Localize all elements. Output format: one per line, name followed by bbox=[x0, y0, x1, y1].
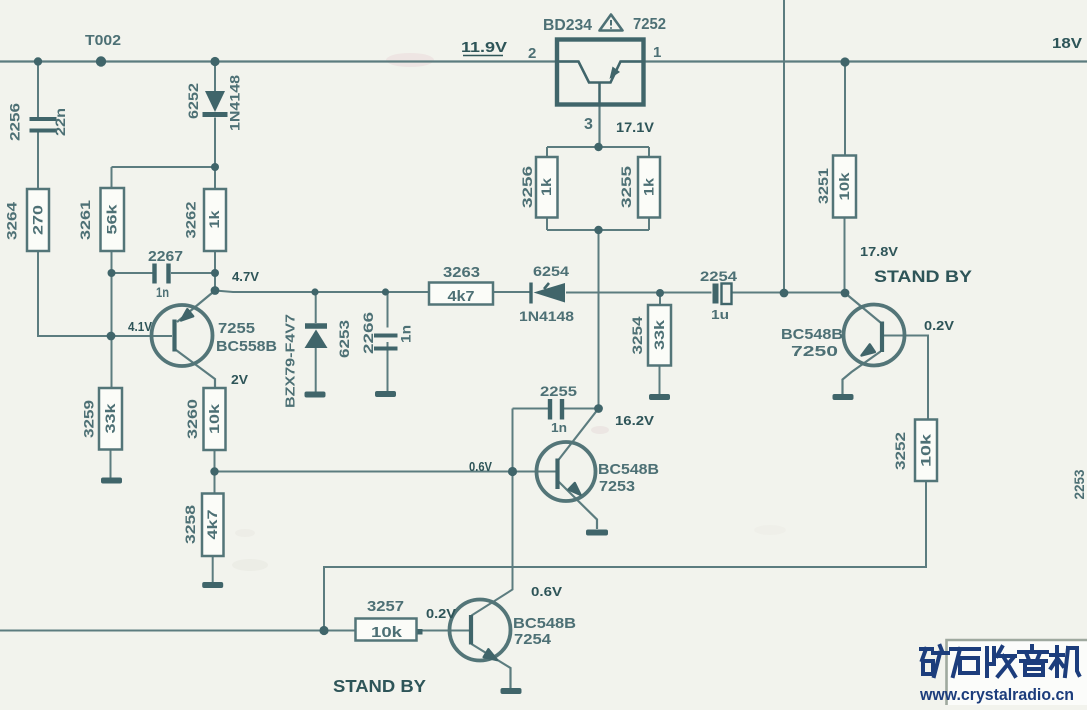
svg-text:56k: 56k bbox=[105, 204, 120, 235]
svg-text:10k: 10k bbox=[919, 433, 934, 467]
svg-text:1n: 1n bbox=[399, 325, 414, 343]
svg-text:22n: 22n bbox=[52, 108, 68, 136]
svg-text:3261: 3261 bbox=[77, 200, 93, 240]
svg-text:3: 3 bbox=[584, 116, 593, 133]
svg-text:BC548B: BC548B bbox=[513, 615, 576, 632]
svg-text:3254: 3254 bbox=[629, 316, 645, 354]
svg-text:2V: 2V bbox=[231, 373, 249, 387]
svg-text:33k: 33k bbox=[103, 403, 118, 434]
svg-text:17.8V: 17.8V bbox=[860, 244, 898, 259]
svg-text:7250: 7250 bbox=[791, 343, 838, 360]
svg-text:10k: 10k bbox=[837, 172, 852, 201]
svg-text:www.crystalradio.cn: www.crystalradio.cn bbox=[919, 685, 1074, 704]
svg-text:3256: 3256 bbox=[519, 166, 535, 208]
svg-text:2266: 2266 bbox=[360, 312, 376, 354]
svg-text:3259: 3259 bbox=[80, 400, 96, 438]
svg-text:6253: 6253 bbox=[336, 320, 352, 358]
svg-text:3262: 3262 bbox=[182, 201, 198, 238]
svg-text:270: 270 bbox=[31, 205, 46, 235]
svg-text:17.1V: 17.1V bbox=[616, 119, 655, 135]
svg-text:0.6V: 0.6V bbox=[469, 460, 493, 474]
svg-text:BC558B: BC558B bbox=[216, 338, 277, 355]
svg-text:7254: 7254 bbox=[514, 631, 552, 648]
svg-text:3257: 3257 bbox=[367, 598, 404, 615]
svg-text:0.2V: 0.2V bbox=[924, 318, 954, 333]
svg-text:1n: 1n bbox=[156, 284, 169, 300]
svg-text:0.2V: 0.2V bbox=[426, 606, 456, 621]
svg-text:2253: 2253 bbox=[1071, 469, 1087, 499]
svg-text:18V: 18V bbox=[1052, 35, 1082, 52]
svg-text:3263: 3263 bbox=[443, 264, 480, 281]
svg-text:10k: 10k bbox=[371, 624, 403, 641]
svg-text:1k: 1k bbox=[207, 210, 222, 229]
svg-text:BC548B: BC548B bbox=[598, 461, 659, 478]
svg-text:3251: 3251 bbox=[815, 168, 831, 204]
svg-text:2: 2 bbox=[528, 45, 536, 62]
svg-text:T002: T002 bbox=[85, 32, 121, 49]
svg-text:1n: 1n bbox=[551, 420, 567, 435]
svg-text:10k: 10k bbox=[207, 403, 222, 434]
svg-text:3264: 3264 bbox=[3, 202, 19, 240]
svg-text:2267: 2267 bbox=[148, 248, 183, 265]
svg-text:16.2V: 16.2V bbox=[615, 413, 654, 428]
svg-text:3252: 3252 bbox=[892, 432, 908, 470]
svg-text:2254: 2254 bbox=[700, 268, 737, 284]
svg-text:1k: 1k bbox=[539, 177, 554, 196]
svg-text:7252: 7252 bbox=[633, 16, 666, 33]
svg-text:1N4148: 1N4148 bbox=[226, 75, 242, 131]
svg-text:11.9V: 11.9V bbox=[461, 39, 507, 56]
svg-text:4k7: 4k7 bbox=[205, 510, 220, 540]
svg-text:3260: 3260 bbox=[184, 399, 200, 439]
svg-text:STAND BY: STAND BY bbox=[333, 676, 426, 696]
svg-text:3255: 3255 bbox=[618, 166, 634, 208]
svg-text:4.7V: 4.7V bbox=[232, 270, 260, 284]
svg-text:3258: 3258 bbox=[182, 505, 198, 544]
svg-text:STAND BY: STAND BY bbox=[874, 267, 973, 286]
svg-text:7253: 7253 bbox=[599, 478, 635, 495]
svg-text:1: 1 bbox=[653, 44, 661, 61]
svg-text:4.1V: 4.1V bbox=[128, 320, 153, 334]
svg-text:4k7: 4k7 bbox=[448, 288, 475, 305]
svg-text:BC548B: BC548B bbox=[781, 326, 843, 343]
svg-text:6254: 6254 bbox=[533, 263, 569, 279]
svg-text:33k: 33k bbox=[652, 319, 667, 350]
svg-text:BD234: BD234 bbox=[543, 17, 592, 34]
svg-text:1u: 1u bbox=[711, 307, 729, 322]
svg-text:1k: 1k bbox=[642, 177, 657, 196]
svg-text:7255: 7255 bbox=[218, 320, 255, 337]
svg-text:BZX79-F4V7: BZX79-F4V7 bbox=[283, 314, 298, 408]
svg-text:0.6V: 0.6V bbox=[531, 584, 562, 599]
svg-text:2256: 2256 bbox=[6, 103, 22, 141]
svg-text:6252: 6252 bbox=[185, 83, 201, 119]
svg-text:2255: 2255 bbox=[540, 383, 577, 399]
svg-text:1N4148: 1N4148 bbox=[519, 308, 574, 324]
